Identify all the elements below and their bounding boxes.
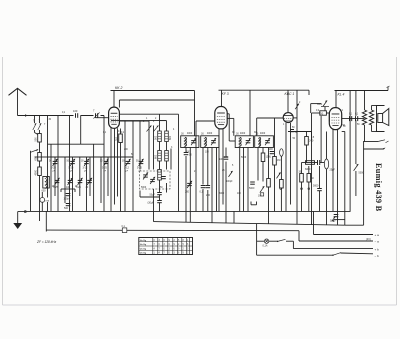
right box bottom	[345, 224, 364, 226]
tap arrow into x39.5	[31, 149, 39, 152]
svg-text:4000: 4000	[260, 133, 266, 135]
svg-text:100pF: 100pF	[64, 197, 71, 200]
KF3 leg2	[222, 129, 224, 205]
coil L5 bottom	[158, 170, 162, 181]
riser to +a	[313, 212, 315, 235]
AVC left loop	[30, 151, 32, 212]
speaker cone	[383, 109, 389, 126]
pilot lamp	[257, 239, 269, 247]
KL4 grid wire	[328, 113, 330, 122]
v x159.5 a	[159, 115, 161, 151]
electrolytic cap 50uF	[150, 193, 162, 197]
v x51	[50, 144, 52, 211]
v x204.5 down	[202, 148, 204, 212]
top bus C	[335, 90, 389, 92]
svg-text:+ b: + b	[375, 247, 380, 251]
coil L6 top	[165, 131, 172, 142]
trimmer slash b	[38, 123, 41, 130]
top bus A	[111, 90, 195, 92]
electrolytic cap 30uF	[148, 195, 162, 212]
wire bus C to KL4 top	[335, 91, 337, 108]
svg-text:5000: 5000	[317, 104, 323, 106]
svg-text:5-25: 5-25	[102, 167, 107, 170]
misc small labels	[33, 102, 360, 195]
svg-text:5000: 5000	[219, 193, 225, 195]
wire drop x34.5	[35, 116, 39, 135]
tube KBC1 (circle)	[283, 113, 293, 123]
svg-text:5-25: 5-25	[69, 167, 74, 170]
trimmer row1 #4	[102, 159, 109, 173]
h-link y133.5 kbc	[288, 132, 312, 141]
res 240	[305, 137, 314, 146]
svg-text:KF 3: KF 3	[222, 92, 229, 96]
tube KL4	[329, 108, 341, 130]
v x140	[139, 121, 141, 170]
v x239.5 down	[239, 148, 241, 212]
v x79.8	[79, 157, 81, 196]
svg-text:0,1A: 0,1A	[263, 244, 268, 247]
tone pot	[354, 164, 365, 175]
svg-text:3-12: 3-12	[83, 167, 88, 170]
svg-text:5000: 5000	[313, 185, 319, 188]
trimmer row2 #1	[53, 178, 60, 190]
svg-text:4000: 4000	[207, 133, 213, 135]
cap 100pF	[64, 194, 71, 201]
terminal dots	[280, 188, 310, 190]
resistor R1 on x39.5	[35, 134, 42, 143]
v x65	[64, 157, 66, 203]
wire x297 lower	[296, 134, 298, 225]
trimmer row1 #6	[137, 159, 144, 173]
bus1 connector dot	[24, 211, 26, 213]
bus 2	[154, 222, 345, 226]
wire bus B to KBC1 top	[287, 90, 289, 112]
cap on anode wire 2	[356, 116, 358, 121]
tone switch mark	[332, 216, 336, 222]
svg-text:5000: 5000	[141, 187, 147, 189]
link y197	[140, 191, 160, 198]
voltage table grid	[139, 238, 193, 255]
antenna	[9, 88, 27, 115]
svg-text:6000: 6000	[305, 168, 311, 171]
KK2 leg 3	[117, 128, 119, 196]
svg-text:Eumig 439 B: Eumig 439 B	[374, 163, 383, 212]
v x90	[89, 157, 91, 196]
v x72.5	[72, 157, 74, 211]
svg-text:240: 240	[309, 139, 314, 143]
speaker switch line	[363, 140, 388, 143]
v x133	[132, 121, 134, 212]
KBC1 grid wire	[257, 118, 284, 136]
v x209 down	[211, 148, 213, 223]
KL4 leg2	[337, 130, 339, 225]
trimmer below IF1	[185, 181, 192, 194]
res x268.5	[267, 179, 271, 188]
v x263	[262, 148, 264, 182]
switch in -b	[332, 253, 341, 256]
trimmer above KL4	[321, 100, 329, 106]
bus 3	[46, 230, 299, 241]
IF4 coil	[258, 137, 261, 147]
wire drop x104	[103, 116, 105, 212]
svg-text:− b: − b	[375, 254, 380, 258]
KBC1 leg1	[285, 123, 287, 212]
cap below IF2 b	[206, 148, 211, 212]
svg-text:KBC 1: KBC 1	[285, 92, 295, 96]
capacitor C1 in antenna lead	[73, 109, 81, 118]
res x274	[273, 157, 281, 166]
wire bus A to KK2 anode cap	[113, 91, 115, 108]
IF4 box	[255, 136, 274, 148]
trimmer row1 #5	[124, 159, 131, 173]
IF1 coil	[184, 137, 187, 147]
oscillator coil box	[42, 177, 50, 193]
tube KK2	[109, 107, 120, 128]
svg-text:600: 600	[169, 135, 172, 140]
resistor R3 on x39.5	[35, 167, 42, 176]
terminal line +a	[314, 233, 380, 237]
trimmer row2 #4	[86, 178, 93, 190]
wire drop x69.5	[69, 116, 71, 212]
IF3 trimmer	[246, 138, 251, 145]
svg-text:KL 4: KL 4	[338, 92, 345, 96]
wire y120.8	[111, 120, 167, 122]
wire bus B right end drop	[308, 90, 310, 95]
KF3 leg1	[218, 129, 220, 212]
v x213.5 down	[216, 148, 218, 212]
right box left side	[344, 132, 346, 226]
v x159.5 b	[159, 161, 161, 170]
svg-text:4000: 4000	[187, 133, 193, 135]
v x178.5	[178, 114, 180, 211]
IF1 trimmer	[191, 138, 196, 145]
v x274b	[274, 165, 276, 212]
v x274	[274, 118, 276, 157]
avc arrow	[276, 172, 280, 178]
wire y120.8 ext	[160, 120, 167, 122]
risers bus2	[154, 189, 235, 223]
svg-text:ZF = 128 kHz: ZF = 128 kHz	[36, 240, 57, 244]
wire bus B drop right of KBC1	[296, 90, 298, 133]
v x93.6	[93, 144, 95, 211]
trimmer row1 #1	[51, 159, 58, 173]
v x356.5	[355, 120, 357, 196]
KF3 screen wire	[227, 118, 234, 135]
v x101	[100, 157, 102, 203]
svg-text:200: 200	[185, 191, 190, 194]
trimmer slash a	[33, 123, 36, 130]
link y156.5b	[48, 156, 134, 158]
wire antenna to tuner	[18, 114, 105, 117]
ground bus 1	[18, 210, 351, 212]
meter circle	[40, 192, 50, 211]
svg-text:5-25: 5-25	[51, 167, 56, 170]
cap below IF1	[184, 153, 193, 157]
svg-text:1M: 1M	[258, 195, 261, 198]
transformer secondary wires	[372, 106, 377, 132]
page left edge	[2, 57, 4, 305]
pot bottom box	[261, 193, 264, 196]
res x281.4	[280, 180, 284, 189]
trimmer row1 #2	[69, 159, 76, 173]
bus C right end tick	[387, 86, 390, 91]
cap 500pF	[61, 189, 75, 210]
v x247 down	[247, 148, 249, 212]
trimmer near KF3 legs	[228, 171, 232, 177]
svg-text:600: 600	[35, 156, 38, 161]
speaker line 2	[363, 148, 385, 150]
svg-text:5000: 5000	[249, 187, 255, 190]
svg-text:100: 100	[73, 109, 78, 113]
IF2 box	[201, 136, 219, 148]
v x243 down	[243, 148, 245, 212]
svg-text:25μF: 25μF	[330, 169, 336, 172]
svg-text:Ua Ug: Ua Ug	[140, 248, 147, 250]
KBC1 anode wire	[293, 117, 297, 119]
v x55	[54, 157, 56, 196]
KF3 grid wire left	[196, 120, 215, 122]
label tube KF3	[222, 92, 229, 96]
resistor R2 on x39.5	[35, 153, 42, 162]
drop x80.7	[80, 116, 82, 145]
coil L3 top	[154, 131, 161, 142]
cap 5000 mid-right	[313, 166, 322, 211]
primary bottom wire	[363, 125, 364, 142]
band switch contacts	[147, 126, 159, 132]
v x153.5	[153, 126, 155, 170]
v x159.5 c	[159, 180, 161, 193]
v x184.5 down	[185, 148, 187, 223]
filter cap 1	[160, 177, 166, 190]
trimmer row2 #3	[76, 178, 83, 190]
wire KK2 anode right	[119, 113, 178, 115]
v x268.5	[268, 148, 270, 225]
output transformer primary	[362, 110, 366, 125]
cap 5000 bottom	[330, 215, 338, 223]
link y143.5	[48, 143, 105, 145]
speaker frame	[377, 106, 385, 132]
cap5000 bottom link	[334, 219, 345, 221]
label tube KK2	[115, 86, 122, 90]
volume pot	[258, 186, 265, 197]
terminal line -b	[257, 253, 379, 258]
bus 3 left drop	[45, 212, 47, 232]
svg-text:50μF: 50μF	[150, 194, 156, 197]
res 50 left of KL4	[320, 111, 327, 116]
v x258 down	[257, 148, 259, 181]
v x86.5	[86, 157, 88, 211]
wire drop x39.5	[39, 116, 41, 222]
svg-text:500: 500	[64, 207, 69, 210]
svg-text:500: 500	[35, 137, 38, 142]
svg-text:3-12: 3-12	[124, 167, 129, 170]
v x196	[195, 121, 197, 212]
v x302 lines	[301, 163, 303, 212]
v x306	[306, 132, 308, 163]
tube KF3	[215, 107, 227, 129]
v x325 up	[324, 107, 326, 111]
v x166.5 a	[166, 121, 168, 151]
cap on anode wire 1	[350, 116, 352, 121]
filter trimmer 1	[141, 172, 148, 189]
IF3 coil	[239, 137, 242, 147]
output transformer secondary	[369, 110, 373, 125]
wire bus C drop x352	[349, 91, 351, 212]
KK2 leg 1	[110, 128, 112, 212]
svg-text:− a: − a	[375, 240, 380, 244]
v x318.5	[315, 162, 325, 164]
cap x318.5	[318, 160, 320, 165]
IF3 box	[235, 136, 253, 148]
hres KL4 bias	[305, 161, 315, 171]
voltage table frame	[139, 238, 193, 255]
trimmer row1 #3	[83, 159, 90, 173]
KF3 anode wire	[227, 114, 235, 141]
svg-text:4000: 4000	[240, 133, 246, 135]
diode arrow on drop	[295, 103, 299, 109]
title Eumig 439 B	[374, 163, 383, 212]
wire bus C to output transformer	[364, 91, 366, 111]
fuse in bus 3	[122, 225, 127, 233]
label 4V	[366, 238, 371, 241]
trimmer row2 #2	[66, 178, 73, 190]
IF2 trimmer	[211, 138, 216, 145]
svg-text:200: 200	[116, 136, 119, 141]
v x281.4	[280, 149, 282, 180]
wire bus B to KF3 top	[221, 90, 223, 106]
IF4 trimmer	[265, 138, 270, 145]
wire drop x47.5	[47, 116, 49, 212]
IF2 coil	[204, 137, 207, 147]
v x149	[148, 121, 150, 170]
cap y151 x274	[268, 149, 274, 154]
resistor on KK2 leg	[116, 129, 123, 212]
wire KK2 grid left	[96, 116, 109, 118]
svg-text:Ua Ug: Ua Ug	[140, 244, 147, 246]
wire KK2 g3 right	[119, 120, 149, 122]
electrolytic KL4	[324, 132, 335, 225]
KL4 leg1	[332, 130, 334, 212]
KBC1 leg2	[290, 123, 292, 205]
svg-text:200: 200	[206, 194, 211, 197]
ground arrow	[13, 212, 22, 229]
h-link y156.5	[35, 156, 48, 158]
coil L4 mid	[154, 151, 161, 162]
KL4 anode wire	[342, 118, 365, 120]
v x311.5 main	[311, 113, 313, 225]
link to KL4 trimmer	[311, 104, 321, 113]
v x190 down	[189, 148, 191, 223]
switch after lamp	[269, 239, 294, 242]
wire bus A right drop	[194, 91, 196, 136]
v x309.5 res	[307, 174, 314, 183]
svg-text:(4V): (4V)	[366, 238, 371, 241]
label tube KBC1	[285, 92, 295, 96]
wire lamp branch corner	[292, 241, 294, 248]
label tube KL4	[338, 92, 345, 96]
svg-text:Ua Ug: Ua Ug	[140, 240, 147, 242]
dashed box oscillator filter	[140, 171, 171, 189]
h-link y131.5 d	[342, 131, 345, 133]
v x361	[363, 142, 365, 226]
terminal line +b	[293, 247, 379, 251]
cap 5000 mid	[249, 182, 255, 190]
svg-text:1M: 1M	[277, 159, 280, 162]
wire bus C drop x360	[355, 91, 357, 117]
wire bus B drop to IF3	[249, 90, 251, 136]
cap below IF2 a	[200, 186, 206, 194]
filter trimmer 2	[150, 177, 155, 184]
cap on x226	[219, 148, 228, 224]
svg-text:600: 600	[154, 154, 157, 159]
svg-text:Ua Ug: Ua Ug	[140, 253, 147, 255]
speaker coil box	[378, 114, 383, 123]
h-link y131.5 kl4	[297, 131, 306, 133]
page right edge	[396, 57, 398, 305]
wire res50	[312, 112, 330, 114]
svg-text:4000: 4000	[35, 169, 38, 175]
svg-text:500: 500	[154, 135, 157, 140]
trimmer C2 in antenna lead	[93, 108, 101, 118]
h-link y163	[302, 162, 315, 164]
svg-text:KK 2: KK 2	[115, 86, 122, 90]
v x281.4c	[280, 188, 282, 212]
top bus B	[219, 89, 310, 91]
svg-text:100pF: 100pF	[226, 181, 233, 183]
v x125	[124, 121, 126, 212]
v x321.1	[320, 116, 322, 163]
v x309.5 lines	[308, 166, 310, 212]
cap below KBC1	[290, 130, 298, 135]
v x108	[107, 157, 109, 196]
v x302 res	[299, 171, 304, 183]
IF1 box	[181, 136, 199, 148]
resistor (2M)	[261, 153, 271, 162]
svg-text:600: 600	[42, 190, 47, 193]
v x166.5 b	[166, 161, 168, 193]
v x171	[170, 149, 172, 170]
pilot lamp feed	[256, 224, 258, 255]
ZF text	[36, 240, 57, 244]
wire drop x58	[57, 116, 59, 212]
coil L7 mid	[165, 151, 169, 162]
IF12 labels	[181, 133, 259, 136]
KK2 leg 2	[114, 128, 116, 204]
page bottom edge	[3, 304, 397, 306]
terminal line -a	[299, 240, 379, 244]
wire KK2 screen to right	[119, 100, 194, 108]
bracket x251	[251, 202, 257, 205]
svg-text:+ a: + a	[375, 233, 380, 237]
electrolytic oval	[280, 149, 284, 157]
svg-text:5000: 5000	[241, 157, 247, 159]
